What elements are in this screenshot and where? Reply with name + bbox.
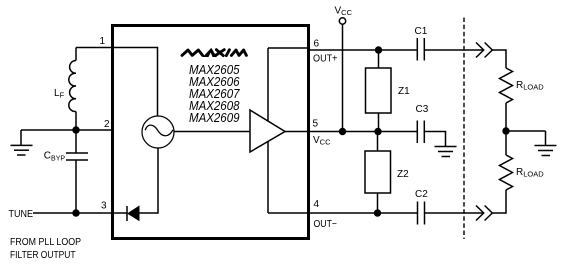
svg-text:LF: LF (54, 88, 65, 100)
svg-text:5: 5 (313, 119, 319, 130)
svg-text:RLOAD: RLOAD (516, 167, 544, 179)
svg-text:Z2: Z2 (397, 169, 409, 180)
svg-text:6: 6 (314, 39, 320, 50)
svg-text:C2: C2 (415, 189, 428, 200)
svg-text:C1: C1 (415, 26, 428, 37)
svg-text:OUT−: OUT− (314, 219, 338, 230)
svg-text:FROM PLL LOOP: FROM PLL LOOP (10, 237, 81, 248)
svg-text:1: 1 (100, 36, 106, 47)
svg-text:4: 4 (314, 199, 320, 210)
svg-text:C3: C3 (416, 104, 429, 115)
svg-text:VCC: VCC (335, 6, 353, 18)
svg-text:3: 3 (101, 201, 107, 212)
svg-text:Z1: Z1 (398, 86, 410, 97)
svg-text:MAX2609: MAX2609 (189, 111, 240, 125)
svg-text:2: 2 (104, 119, 110, 130)
svg-text:OUT+: OUT+ (313, 53, 338, 64)
svg-text:TUNE: TUNE (9, 209, 34, 220)
svg-text:RLOAD: RLOAD (516, 80, 544, 92)
svg-text:VCC: VCC (313, 135, 331, 147)
svg-text:FILTER OUTPUT: FILTER OUTPUT (10, 250, 76, 261)
